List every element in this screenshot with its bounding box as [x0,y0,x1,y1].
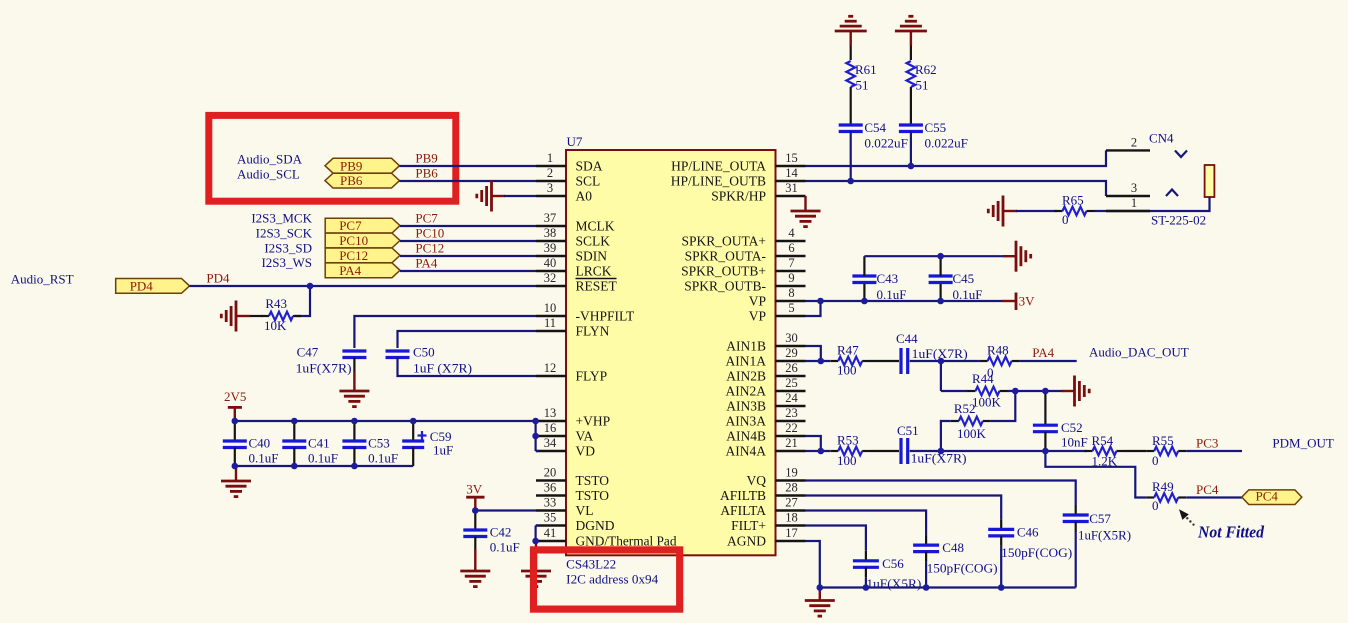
svg-text:Audio_SDA: Audio_SDA [237,152,303,167]
net label PB9 [415,151,437,166]
pin 30 AIN1B [726,331,805,354]
junction C43 on VP rail [861,298,868,305]
connector CN4 pin 1 wire [1095,196,1210,211]
net label PC10 [415,226,444,241]
svg-text:40: 40 [544,256,557,270]
label C41 [308,436,330,451]
wire C44 to R48 [910,360,980,362]
wire ground to R61 [850,46,852,61]
label C43 [877,271,899,286]
svg-text:FLYP: FLYP [576,369,608,384]
svg-text:2: 2 [547,166,553,180]
annotation red rectangle around Audio_SDA/Audio_SCL [209,115,456,201]
capacitor C56 [853,551,879,588]
wire pin 17 AGND down to ground rail [806,541,820,588]
svg-text:1uF(X5R): 1uF(X5R) [1078,528,1131,543]
wire pins 35/41 bracket [536,526,539,542]
resistor R65 [1055,207,1095,216]
wire pin 19 VQ to C57 [806,481,1076,506]
net label I2S3_WS [261,255,312,270]
ground at R43 [221,301,263,332]
label R65 [1062,192,1084,207]
capacitor C53 [342,421,366,466]
svg-text:CS43L22: CS43L22 [566,556,616,571]
svg-text:0: 0 [1152,453,1159,468]
note Not Fitted [1197,522,1265,541]
wire R53 to C51 [870,450,899,452]
junction C45 on VP rail [937,298,944,305]
pin 18 FILT+ [731,511,805,534]
svg-text:22: 22 [785,421,798,435]
svg-text:HP/LINE_OUTA: HP/LINE_OUTA [671,159,766,174]
wire PC7 to IC [400,225,536,227]
svg-text:18: 18 [785,511,798,525]
op-amp U7 CS43L22 IC body [566,150,776,555]
wire PC10 to IC [400,240,536,242]
svg-text:23: 23 [785,406,798,420]
svg-text:FILT+: FILT+ [731,518,766,533]
ground at pin 31 SPKR/HP [791,196,821,227]
svg-text:C41: C41 [308,436,330,451]
svg-text:1uF (X7R): 1uF (X7R) [413,360,472,375]
value 10nF [1061,434,1088,449]
label R49 [1152,479,1174,494]
svg-text:C47: C47 [297,345,319,360]
port flag PC7 [325,218,400,233]
value 1uF(X7R) [912,346,968,361]
svg-text:Not Fitted: Not Fitted [1197,522,1265,541]
wire PA4 to IC [400,270,536,272]
pin 1 SDA [536,151,603,174]
value 10K [264,318,287,333]
svg-text:32: 32 [544,271,557,285]
pin 36 TSTO [536,481,609,504]
svg-text:100: 100 [837,453,857,468]
svg-text:SDA: SDA [576,159,603,174]
svg-text:6: 6 [788,241,794,255]
junction bottom rail at C41 [291,463,298,470]
svg-text:R48: R48 [987,343,1009,358]
wire R52 left leg down to AIN4A node [941,421,951,451]
wire pin 5 VP bracket [806,301,821,316]
junction C55 on pin 15 net [908,163,915,170]
net label PA4 [415,256,437,271]
svg-text:0.1uF: 0.1uF [368,451,398,466]
svg-text:100: 100 [837,362,857,377]
svg-text:35: 35 [544,511,557,525]
svg-text:1: 1 [547,151,553,165]
svg-text:PDM_OUT: PDM_OUT [1272,436,1333,451]
capacitor C40 [223,421,247,466]
wire bottom ground rail [820,586,1076,588]
svg-text:Audio_SCL: Audio_SCL [237,166,300,181]
svg-text:R44: R44 [972,371,994,386]
pin 17 AGND [727,526,806,549]
label R52 [954,401,976,416]
svg-text:C46: C46 [1017,525,1039,540]
svg-text:C55: C55 [925,120,947,135]
svg-text:PD4: PD4 [130,279,154,294]
power port 2V5 [224,389,246,421]
svg-text:AGND: AGND [727,534,766,549]
svg-text:36: 36 [544,481,557,495]
pin 8 VP [749,286,806,309]
label R54 [1092,433,1114,448]
wire R52 right leg up to R44 node [991,391,1016,421]
label C59 [430,429,452,444]
wire R55 to PDM_OUT [1186,450,1242,452]
port flag PC10 [325,233,400,248]
svg-text:FLYN: FLYN [576,324,610,339]
ground below C42 [460,550,490,587]
label R55 [1152,433,1174,448]
svg-text:16: 16 [544,421,557,435]
pin 11 FLYN [536,316,610,339]
wire R47 to C44 [870,360,899,362]
svg-text:100K: 100K [972,395,1002,410]
pin 35 DGND [536,511,615,534]
wire C43/C45 top rail to ground [864,255,1004,257]
svg-text:38: 38 [544,226,557,240]
svg-text:AIN1B: AIN1B [726,339,766,354]
svg-text:PC12: PC12 [415,241,444,256]
pin 5 VP [749,301,806,324]
net label Audio_RST [11,271,74,286]
svg-text:PB9: PB9 [415,151,437,166]
svg-text:39: 39 [544,241,557,255]
pin 29 AIN1A [726,346,806,369]
pin 32 RESET [536,271,618,294]
pin 14 HP/LINE_OUTB [671,166,806,189]
wire R44 to ground [1008,390,1064,392]
junction at pin 41 [532,538,539,545]
svg-text:AIN3B: AIN3B [726,399,766,414]
svg-text:R43: R43 [265,296,287,311]
resistor R62 [907,61,916,87]
label R53 [837,433,859,448]
svg-text:PC10: PC10 [415,226,444,241]
svg-text:10nF: 10nF [1061,434,1088,449]
wire PB6 to pin 2 SCL [400,180,537,182]
svg-text:AIN2A: AIN2A [726,384,767,399]
junction bottom rail at C53 [351,463,358,470]
ground at R65 [988,196,1017,227]
svg-text:PA4: PA4 [1032,345,1054,360]
wire A0 ground to pin 3 [504,195,536,197]
svg-text:I2S3_SD: I2S3_SD [264,240,312,255]
svg-text:0.022uF: 0.022uF [925,135,969,150]
port flag PD4 [116,279,190,294]
capacitor C59 polarized [402,421,426,466]
label C42 [490,524,512,539]
wire PB9 to pin 1 SDA [400,165,537,167]
svg-text:Audio_DAC_OUT: Audio_DAC_OUT [1089,345,1189,360]
svg-text:21: 21 [785,436,798,450]
pin 41 GND/Thermal Pad [536,526,677,549]
port flag PB9 [325,158,400,173]
svg-text:33: 33 [544,496,557,510]
svg-text:VL: VL [576,503,594,518]
svg-text:1uF(X5R): 1uF(X5R) [866,576,921,591]
svg-text:PC3: PC3 [1196,436,1218,451]
svg-text:PA4: PA4 [415,256,437,271]
svg-text:AFILTB: AFILTB [720,488,766,503]
net label PC3 [1196,436,1218,451]
pin 23 AIN3A [726,406,806,429]
svg-text:A0: A0 [576,189,593,204]
port flag PC12 [325,248,400,263]
port flag PB6 [325,173,400,188]
pin 39 SDIN [536,241,607,264]
ground below 2V5 rail caps [221,466,251,497]
svg-text:12: 12 [544,361,557,375]
junction C52 bottom node [1042,448,1049,455]
wire pin 22 AIN4B bracket [806,436,821,451]
capacitor C46 [988,519,1014,587]
svg-text:2V5: 2V5 [224,389,246,404]
svg-text:SPKR_OUTB-: SPKR_OUTB- [684,279,766,294]
svg-text:28: 28 [785,481,798,495]
svg-text:29: 29 [785,346,798,360]
label C48 [942,540,964,555]
value 0.1uF [308,451,338,466]
junction C44/R44 node [938,358,945,365]
wire R54 to R55 [1125,450,1147,452]
svg-text:26: 26 [785,361,798,375]
svg-text:0.1uF: 0.1uF [953,287,983,302]
capacitor C48 [913,535,939,587]
value 100K [972,395,1002,410]
value 0 [1152,498,1159,513]
svg-text:U7: U7 [567,134,583,149]
svg-text:14: 14 [785,166,798,180]
wire bottom rail of decoupling caps [235,465,413,467]
svg-text:C45: C45 [953,271,975,286]
net label PA4 [1032,345,1054,360]
port flag PA4 [325,263,400,278]
svg-text:C40: C40 [249,436,271,451]
svg-text:C52: C52 [1061,420,1083,435]
svg-text:0: 0 [1062,212,1069,227]
svg-text:24: 24 [785,391,798,405]
svg-text:37: 37 [544,211,557,225]
svg-text:AIN1A: AIN1A [726,354,767,369]
wire C50 to pin 12 FLYP [398,358,537,377]
value 1uF(X5R) [1078,528,1131,543]
net label Audio_SCL [237,166,300,181]
resistor R43 [261,312,301,321]
value 0.1uF [249,451,279,466]
value 150pF(COG) [1001,545,1072,560]
svg-text:Audio_RST: Audio_RST [11,271,74,286]
svg-text:PC10: PC10 [339,233,368,248]
label C52 [1061,420,1083,435]
junction C51/R52 node [938,448,945,455]
svg-text:R61: R61 [855,62,877,77]
svg-text:51: 51 [916,78,929,93]
value 0 [987,365,994,380]
svg-text:20: 20 [544,466,557,480]
value 0 [1062,212,1069,227]
svg-text:3V: 3V [1019,294,1036,309]
wire pin 30 AIN1B bracket [806,346,821,361]
value 0.022uF [925,135,969,150]
label R47 [837,343,859,358]
svg-text:41: 41 [544,526,557,540]
connector CN4 pin 2 [1106,135,1187,157]
svg-text:SPKR_OUTB+: SPKR_OUTB+ [681,264,766,279]
junction 2V5 rail at C41 [291,418,298,425]
ground above R62 [895,16,927,45]
svg-text:R65: R65 [1062,192,1084,207]
port flag PC4 [1242,488,1302,504]
svg-text:1uF: 1uF [433,443,453,458]
pin 38 SCLK [536,226,610,249]
junction AIN1 bracket [818,358,825,365]
svg-text:PC12: PC12 [339,248,368,263]
svg-text:R53: R53 [837,433,859,448]
svg-text:TSTO: TSTO [576,473,610,488]
svg-text:R55: R55 [1152,433,1174,448]
connector CN4 pin 3 [1106,181,1178,196]
svg-text:150pF(COG): 150pF(COG) [1001,545,1072,560]
net label PB6 [415,166,438,181]
pin 10 -VHPFILT [536,301,635,324]
svg-text:R62: R62 [915,62,937,77]
svg-text:I2C address 0x94: I2C address 0x94 [566,571,658,586]
capacitor C54 [839,125,863,132]
net label PD4 [206,271,230,286]
svg-text:SCLK: SCLK [576,234,611,249]
power port 3V at VP [1002,293,1035,311]
capacitor C44 [901,348,908,374]
svg-text:100K: 100K [957,426,987,441]
ground below pin 41 [521,541,551,587]
svg-text:34: 34 [544,436,557,450]
wire R61 to C54 [850,87,852,125]
wire pin 28 AFILTB to C46 [806,496,1002,520]
svg-text:C56: C56 [882,556,904,571]
wire 3V to pin 33 VL [475,509,536,511]
pin 7 SPKR_OUTB+ [681,256,805,279]
svg-text:C43: C43 [877,271,899,286]
resistor R53 [830,447,870,456]
pin 2 SCL [536,166,600,189]
junction R44/R52 [1012,388,1019,395]
wire ground to R62 [910,46,912,61]
svg-text:C48: C48 [942,540,964,555]
svg-text:C54: C54 [864,120,886,135]
wire C51 to R54 [910,450,1087,452]
label C57 [1089,511,1111,526]
svg-text:PC7: PC7 [415,211,438,226]
svg-text:C57: C57 [1089,511,1111,526]
net label I2S3_MCK [251,211,312,226]
label C53 [368,436,390,451]
svg-text:3: 3 [1131,181,1137,195]
svg-text:1: 1 [1131,196,1137,210]
annotation red rectangle around CS43L22 note [534,550,680,609]
junction rail at C46 [998,584,1005,591]
value 0.1uF [877,287,907,302]
svg-text:13: 13 [544,406,557,420]
label C54 [864,120,886,135]
wire junction down to R43 [295,286,310,316]
resistor R44 [968,387,1008,396]
junction rail at C48 [923,584,930,591]
pin 9 SPKR_OUTB- [684,271,805,294]
svg-text:C44: C44 [896,331,918,346]
value 0.1uF [368,451,398,466]
wire 2V5 rail to pin 13 +VHP [235,420,536,422]
svg-text:9: 9 [788,271,794,285]
capacitor C50 [386,351,410,358]
label R48 [987,343,1009,358]
wire pin 10 -VHPFILT to C47 [354,316,536,348]
pin 40 LRCK [536,256,612,279]
svg-text:PD4: PD4 [206,271,230,286]
svg-text:DGND: DGND [576,518,615,533]
resistor R55 [1146,447,1186,456]
pin 3 A0 [536,181,592,204]
svg-text:AIN2B: AIN2B [726,369,766,384]
ground below AGND rail [805,588,835,617]
svg-text:-VHPFILT: -VHPFILT [576,309,636,324]
svg-text:30: 30 [785,331,798,345]
svg-text:R47: R47 [837,343,859,358]
svg-text:AIN3A: AIN3A [726,414,767,429]
junction 2V5 rail at pin 13 [532,418,539,425]
svg-text:0.1uF: 0.1uF [877,287,907,302]
svg-text:R49: R49 [1152,479,1174,494]
svg-text:2: 2 [1131,135,1137,149]
pin 22 AIN4B [726,421,805,444]
svg-text:VA: VA [576,429,594,444]
svg-text:8: 8 [788,286,794,300]
label C47 [297,345,319,360]
value 1uF (X7R) [413,360,472,375]
svg-text:27: 27 [785,496,798,510]
pin 28 AFILTB [720,481,806,504]
svg-text:I2S3_MCK: I2S3_MCK [251,211,312,226]
wire pin 29 AIN1A to R47 [806,360,831,362]
junction rail at AGND [817,584,824,591]
svg-text:15: 15 [785,151,798,165]
label C51 [897,423,919,438]
junction node PD4/R43 [307,283,314,290]
wire R49 to PC4 flag [1186,496,1242,498]
svg-text:PB9: PB9 [340,158,362,173]
capacitor C47 [342,351,366,372]
value 1.2K [1092,454,1118,469]
ground right of R44 [1062,376,1089,407]
svg-text:RESET: RESET [576,279,618,294]
resistor R54 [1085,447,1125,456]
value 0.1uF [490,540,520,555]
dotted cursor trail [1186,517,1194,526]
pin 34 VD [536,436,595,459]
svg-text:SDIN: SDIN [576,249,608,264]
svg-text:3: 3 [547,181,553,195]
resistor R61 [846,61,855,87]
value 1uF(X7R) [296,360,352,375]
svg-text:TSTO: TSTO [576,488,610,503]
capacitor C42 [463,511,487,550]
svg-text:0.1uF: 0.1uF [249,451,279,466]
net label PC12 [415,241,444,256]
junction top rail at C45 [937,253,944,260]
pin 26 AIN2B [726,361,805,384]
